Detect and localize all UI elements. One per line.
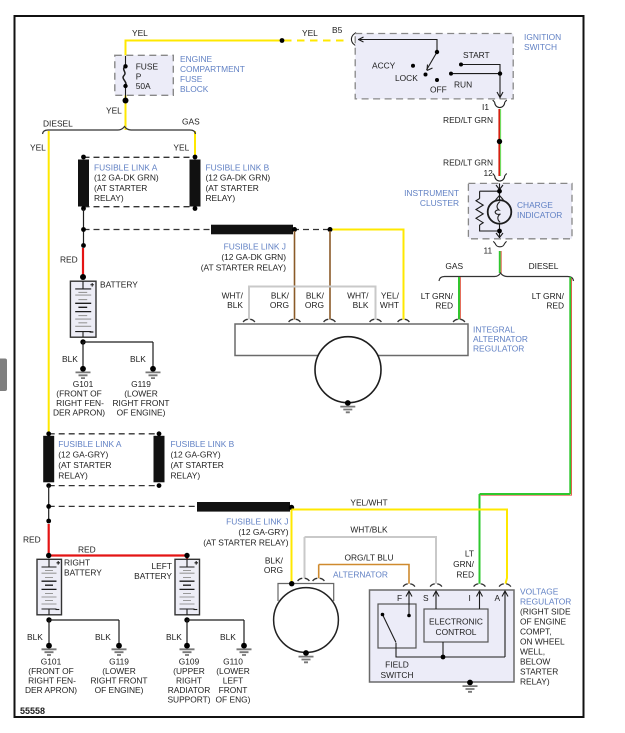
svg-text:WELL,: WELL, bbox=[520, 647, 545, 657]
svg-text:RIGHT: RIGHT bbox=[176, 676, 202, 686]
svg-text:12: 12 bbox=[484, 168, 494, 178]
svg-text:LOCK: LOCK bbox=[395, 73, 418, 83]
svg-text:BLK/: BLK/ bbox=[306, 291, 325, 301]
svg-text:DER APRON): DER APRON) bbox=[53, 408, 105, 418]
svg-text:(AT STARTER RELAY): (AT STARTER RELAY) bbox=[203, 538, 289, 548]
svg-text:RELAY): RELAY) bbox=[171, 471, 201, 481]
svg-text:BLK: BLK bbox=[95, 632, 111, 642]
svg-text:ORG: ORG bbox=[305, 300, 324, 310]
svg-text:YEL/: YEL/ bbox=[381, 291, 400, 301]
svg-text:GAS: GAS bbox=[182, 117, 200, 127]
svg-text:BLK: BLK bbox=[27, 632, 43, 642]
svg-text:G119: G119 bbox=[131, 379, 151, 389]
svg-text:YEL: YEL bbox=[302, 28, 318, 38]
svg-text:G119: G119 bbox=[109, 657, 129, 667]
svg-text:(AT STARTER: (AT STARTER bbox=[58, 460, 111, 470]
svg-text:RED: RED bbox=[23, 535, 41, 545]
svg-text:BLK: BLK bbox=[62, 354, 78, 364]
svg-text:ELECTRONIC: ELECTRONIC bbox=[429, 617, 483, 627]
svg-text:INTEGRAL: INTEGRAL bbox=[473, 325, 515, 335]
svg-text:FUSE: FUSE bbox=[180, 74, 203, 84]
svg-text:LEFT: LEFT bbox=[223, 676, 243, 686]
svg-text:(AT STARTER: (AT STARTER bbox=[206, 183, 259, 193]
svg-text:RELAY): RELAY) bbox=[206, 193, 236, 203]
svg-text:BLK/: BLK/ bbox=[271, 291, 290, 301]
svg-text:RELAY): RELAY) bbox=[94, 193, 124, 203]
svg-text:RED: RED bbox=[546, 301, 564, 311]
svg-text:YEL: YEL bbox=[106, 106, 122, 116]
svg-text:FUSIBLE LINK B: FUSIBLE LINK B bbox=[171, 439, 235, 449]
svg-text:LT: LT bbox=[465, 549, 474, 559]
svg-text:B5: B5 bbox=[332, 25, 343, 35]
svg-text:SWITCH: SWITCH bbox=[524, 42, 557, 52]
svg-text:FIELD: FIELD bbox=[385, 660, 409, 670]
svg-text:FUSIBLE LINK A: FUSIBLE LINK A bbox=[58, 439, 122, 449]
svg-text:YEL: YEL bbox=[30, 143, 46, 153]
svg-text:RUN: RUN bbox=[454, 80, 472, 90]
svg-text:YEL: YEL bbox=[132, 28, 148, 38]
svg-text:GAS: GAS bbox=[445, 261, 463, 271]
svg-text:START: START bbox=[463, 50, 490, 60]
svg-text:BLK: BLK bbox=[130, 354, 146, 364]
svg-text:VOLTAGE: VOLTAGE bbox=[520, 587, 559, 597]
svg-text:CONTROL: CONTROL bbox=[436, 627, 477, 637]
svg-text:DER APRON): DER APRON) bbox=[25, 685, 77, 695]
svg-text:I: I bbox=[469, 593, 471, 603]
svg-text:IGNITION: IGNITION bbox=[524, 32, 561, 42]
svg-text:BLK: BLK bbox=[353, 300, 369, 310]
svg-text:ENGINE: ENGINE bbox=[180, 54, 213, 64]
svg-text:REGULATOR: REGULATOR bbox=[520, 597, 571, 607]
svg-text:(LOWER: (LOWER bbox=[216, 666, 250, 676]
svg-text:BLK/: BLK/ bbox=[265, 556, 284, 566]
svg-text:(LOWER: (LOWER bbox=[124, 388, 158, 398]
svg-text:FUSIBLE LINK B: FUSIBLE LINK B bbox=[206, 162, 270, 172]
svg-text:BLK: BLK bbox=[220, 632, 236, 642]
svg-text:FUSIBLE LINK J: FUSIBLE LINK J bbox=[226, 517, 288, 527]
svg-text:WHT/BLK: WHT/BLK bbox=[350, 525, 388, 535]
svg-text:G110: G110 bbox=[223, 657, 243, 667]
svg-text:LEFT: LEFT bbox=[152, 561, 172, 571]
svg-text:I1: I1 bbox=[482, 102, 489, 112]
svg-text:BATTERY: BATTERY bbox=[134, 571, 172, 581]
svg-text:F: F bbox=[397, 593, 402, 603]
svg-text:INSTRUMENT: INSTRUMENT bbox=[404, 188, 459, 198]
svg-text:WHT/: WHT/ bbox=[347, 291, 369, 301]
svg-text:G109: G109 bbox=[179, 657, 200, 667]
svg-text:(12 GA-GRY): (12 GA-GRY) bbox=[171, 449, 221, 459]
svg-text:(UPPER: (UPPER bbox=[173, 666, 205, 676]
svg-text:(AT STARTER RELAY): (AT STARTER RELAY) bbox=[201, 263, 287, 273]
svg-text:REGULATOR: REGULATOR bbox=[473, 344, 524, 354]
svg-text:(12 GA-DK GRN): (12 GA-DK GRN) bbox=[94, 173, 159, 183]
svg-text:G101: G101 bbox=[73, 379, 94, 389]
svg-text:A: A bbox=[495, 593, 501, 603]
svg-text:BATTERY: BATTERY bbox=[100, 280, 138, 290]
svg-text:INDICATOR: INDICATOR bbox=[517, 210, 562, 220]
svg-text:RED: RED bbox=[435, 301, 453, 311]
svg-text:BELOW: BELOW bbox=[520, 657, 550, 667]
svg-text:(FRONT OF: (FRONT OF bbox=[56, 388, 101, 398]
svg-text:DIESEL: DIESEL bbox=[529, 261, 559, 271]
svg-text:OF ENGINE): OF ENGINE) bbox=[95, 685, 144, 695]
svg-text:WHT: WHT bbox=[380, 300, 399, 310]
svg-text:ACCY: ACCY bbox=[372, 61, 396, 71]
svg-text:BATTERY: BATTERY bbox=[64, 568, 102, 578]
svg-text:YEL: YEL bbox=[173, 143, 189, 153]
svg-text:OFF: OFF bbox=[430, 85, 447, 95]
svg-text:ALTERNATOR: ALTERNATOR bbox=[333, 570, 388, 580]
svg-text:50A: 50A bbox=[136, 81, 151, 91]
svg-text:RELAY): RELAY) bbox=[58, 471, 88, 481]
svg-text:(AT STARTER: (AT STARTER bbox=[171, 460, 224, 470]
svg-text:(AT STARTER: (AT STARTER bbox=[94, 183, 147, 193]
svg-text:ON WHEEL: ON WHEEL bbox=[520, 637, 565, 647]
svg-text:RED/LT GRN: RED/LT GRN bbox=[443, 158, 493, 168]
svg-text:P: P bbox=[136, 71, 142, 81]
svg-text:RED: RED bbox=[60, 255, 78, 265]
svg-text:55558: 55558 bbox=[20, 706, 45, 716]
svg-text:RED: RED bbox=[456, 570, 474, 580]
svg-text:RIGHT FRONT: RIGHT FRONT bbox=[90, 676, 147, 686]
svg-text:LT GRN/: LT GRN/ bbox=[532, 291, 565, 301]
svg-text:(12 GA-DK GRN): (12 GA-DK GRN) bbox=[206, 173, 271, 183]
svg-text:(12 GA-GRY): (12 GA-GRY) bbox=[238, 527, 288, 537]
svg-text:STARTER: STARTER bbox=[520, 667, 558, 677]
svg-text:FUSE: FUSE bbox=[136, 61, 159, 71]
svg-text:CHARGE: CHARGE bbox=[517, 200, 553, 210]
svg-text:CLUSTER: CLUSTER bbox=[420, 198, 459, 208]
svg-text:FUSIBLE LINK A: FUSIBLE LINK A bbox=[94, 162, 158, 172]
svg-text:FRONT: FRONT bbox=[219, 685, 248, 695]
svg-text:G101: G101 bbox=[41, 657, 62, 667]
svg-text:RED: RED bbox=[78, 545, 96, 555]
svg-text:RIGHT: RIGHT bbox=[64, 558, 90, 568]
svg-text:SWITCH: SWITCH bbox=[380, 670, 413, 680]
svg-text:BLK: BLK bbox=[166, 632, 182, 642]
svg-text:(12 GA-DK GRN): (12 GA-DK GRN) bbox=[221, 252, 286, 262]
svg-text:RIGHT FRONT: RIGHT FRONT bbox=[112, 398, 169, 408]
svg-text:DIESEL: DIESEL bbox=[43, 119, 73, 129]
svg-text:COMPARTMENT: COMPARTMENT bbox=[180, 64, 245, 74]
svg-text:BLK: BLK bbox=[227, 300, 243, 310]
svg-text:ALTERNATOR: ALTERNATOR bbox=[473, 334, 528, 344]
svg-text:SUPPORT): SUPPORT) bbox=[167, 695, 210, 705]
svg-text:BLOCK: BLOCK bbox=[180, 84, 209, 94]
svg-text:OF ENG): OF ENG) bbox=[216, 695, 251, 705]
svg-text:RIGHT FEN-: RIGHT FEN- bbox=[56, 398, 104, 408]
svg-text:FUSIBLE LINK J: FUSIBLE LINK J bbox=[224, 242, 286, 252]
svg-text:ORG: ORG bbox=[270, 300, 289, 310]
svg-text:RELAY): RELAY) bbox=[520, 677, 550, 687]
svg-text:GRN/: GRN/ bbox=[453, 559, 475, 569]
svg-text:COMPT,: COMPT, bbox=[520, 627, 552, 637]
svg-text:(12 GA-GRY): (12 GA-GRY) bbox=[58, 449, 108, 459]
svg-text:(LOWER: (LOWER bbox=[102, 666, 136, 676]
svg-text:RED/LT GRN: RED/LT GRN bbox=[443, 115, 493, 125]
svg-text:(RIGHT SIDE: (RIGHT SIDE bbox=[520, 607, 571, 617]
svg-text:(FRONT OF: (FRONT OF bbox=[28, 666, 73, 676]
svg-text:OF ENGINE): OF ENGINE) bbox=[117, 408, 166, 418]
svg-text:YEL/WHT: YEL/WHT bbox=[350, 498, 387, 508]
svg-text:ORG/LT BLU: ORG/LT BLU bbox=[344, 553, 393, 563]
svg-text:RADIATOR: RADIATOR bbox=[168, 685, 211, 695]
svg-text:OF ENGINE: OF ENGINE bbox=[520, 617, 566, 627]
svg-text:RIGHT FEN-: RIGHT FEN- bbox=[28, 676, 76, 686]
svg-text:WHT/: WHT/ bbox=[222, 291, 244, 301]
svg-text:S: S bbox=[423, 593, 429, 603]
svg-text:ORG: ORG bbox=[264, 565, 283, 575]
svg-text:11: 11 bbox=[484, 246, 493, 256]
svg-text:LT GRN/: LT GRN/ bbox=[421, 291, 454, 301]
